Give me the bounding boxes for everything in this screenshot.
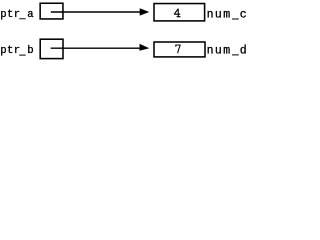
value box num_c xyxy=(154,4,205,21)
wire arrow A xyxy=(51,11,141,13)
svg-text:ptr: ptr xyxy=(0,9,20,21)
svg-text:b: b xyxy=(27,45,33,57)
svg-text:d: d xyxy=(240,44,246,57)
arrowhead B xyxy=(140,44,150,51)
value 7 xyxy=(175,45,180,53)
svg-text:num: num xyxy=(207,9,232,22)
pointer box B xyxy=(40,39,63,58)
svg-text:c: c xyxy=(240,9,246,22)
wire arrow B xyxy=(51,47,141,49)
value box num_d xyxy=(154,42,205,57)
svg-text:ptr: ptr xyxy=(0,45,20,57)
arrowhead A xyxy=(140,8,150,15)
svg-text:num: num xyxy=(207,44,232,57)
pointer box A xyxy=(40,3,63,19)
svg-text:a: a xyxy=(27,9,33,21)
value 4 xyxy=(174,9,181,17)
pointer variable diagram xyxy=(0,0,246,62)
